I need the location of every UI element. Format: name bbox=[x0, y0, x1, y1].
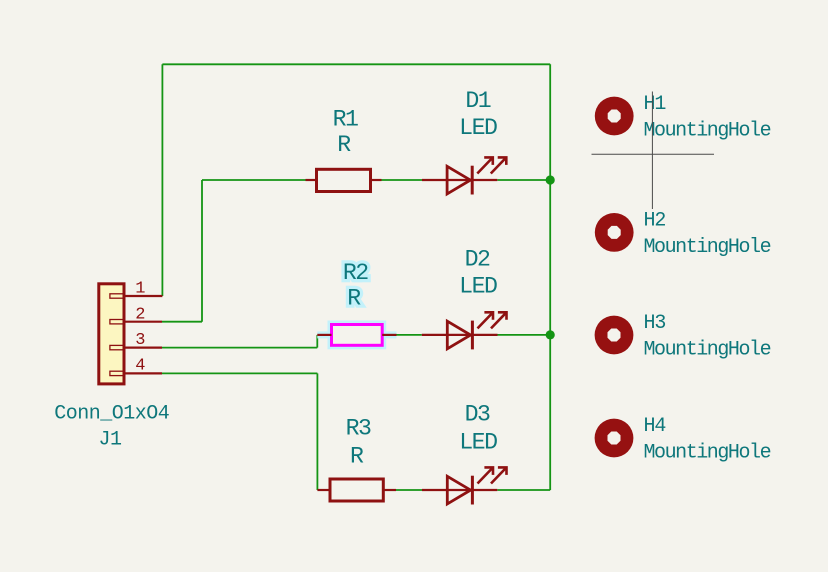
svg-text:MountingHole: MountingHole bbox=[644, 120, 771, 143]
cursor crosshair bbox=[592, 92, 715, 210]
wire D2 to bus bbox=[498, 334, 551, 336]
pin 4 line bbox=[124, 372, 162, 374]
svg-text:H3: H3 bbox=[644, 312, 666, 335]
wire R3 to D3 bbox=[396, 489, 422, 491]
connector J1 body bbox=[99, 284, 124, 384]
pin 2 notch bbox=[110, 320, 124, 324]
wire pin4 horizontal bbox=[162, 372, 317, 374]
mounting hole H1 bbox=[595, 97, 634, 136]
svg-text:MountingHole: MountingHole bbox=[644, 339, 771, 362]
junction at D1 output bbox=[546, 175, 555, 184]
wire pin2 riser bbox=[201, 180, 203, 322]
LED D1 bbox=[422, 157, 506, 194]
svg-text:MountingHole: MountingHole bbox=[644, 236, 771, 259]
svg-text:Conn_O1xO4: Conn_O1xO4 bbox=[54, 402, 169, 425]
pin 2 line bbox=[124, 321, 162, 323]
svg-text:D1: D1 bbox=[465, 88, 490, 114]
svg-text:R1: R1 bbox=[333, 107, 358, 133]
wire right bus vertical bbox=[549, 64, 551, 490]
svg-text:R3: R3 bbox=[346, 415, 371, 441]
svg-text:3: 3 bbox=[135, 331, 145, 350]
wire to R1 bbox=[202, 179, 306, 181]
resistor R3 bbox=[317, 479, 396, 501]
mounting hole H2 bbox=[595, 213, 634, 252]
wire pin2 horizontal bbox=[162, 321, 202, 323]
pin 3 notch bbox=[110, 345, 124, 349]
wire D3 to bus bbox=[497, 489, 550, 491]
wire pin3 riser to R2 bbox=[316, 335, 318, 348]
wire R1 to D1 bbox=[382, 179, 423, 181]
pin 4 notch bbox=[110, 371, 124, 375]
mounting hole H3 bbox=[595, 316, 634, 355]
svg-text:1: 1 bbox=[135, 280, 145, 299]
svg-text:LED: LED bbox=[459, 429, 497, 455]
svg-text:H2: H2 bbox=[644, 209, 666, 232]
wire top bus horizontal bbox=[162, 63, 550, 65]
wire R2 to D2 bbox=[396, 334, 422, 336]
svg-text:J1: J1 bbox=[98, 429, 122, 452]
svg-text:2: 2 bbox=[135, 305, 145, 324]
wire pin3 horizontal bbox=[162, 347, 317, 349]
pin 3 line bbox=[124, 347, 162, 349]
svg-text:R: R bbox=[347, 285, 361, 311]
wire left riser from pin 1 bbox=[161, 64, 163, 296]
wire D1 to bus bbox=[497, 179, 550, 181]
junction at D2 output bbox=[546, 330, 555, 339]
pin 1 notch bbox=[110, 294, 124, 298]
svg-text:D2: D2 bbox=[465, 246, 490, 272]
svg-text:R: R bbox=[350, 443, 364, 469]
svg-text:MountingHole: MountingHole bbox=[644, 442, 771, 465]
wire pin4 drop to R3 bbox=[316, 373, 318, 490]
svg-text:LED: LED bbox=[459, 115, 497, 141]
resistor R2 (selected, magenta with cyan glow) bbox=[317, 325, 396, 346]
resistor R1 bbox=[306, 169, 382, 191]
svg-text:H4: H4 bbox=[644, 415, 666, 438]
svg-text:H1: H1 bbox=[644, 93, 667, 116]
svg-text:LED: LED bbox=[459, 273, 497, 299]
mounting hole H4 bbox=[595, 419, 634, 458]
LED D3 bbox=[422, 467, 507, 504]
pin 1 line bbox=[124, 295, 162, 297]
svg-text:4: 4 bbox=[135, 356, 145, 375]
svg-text:R2: R2 bbox=[343, 260, 368, 286]
svg-text:R: R bbox=[337, 132, 351, 158]
LED D2 bbox=[422, 312, 507, 349]
svg-text:D3: D3 bbox=[465, 401, 490, 427]
